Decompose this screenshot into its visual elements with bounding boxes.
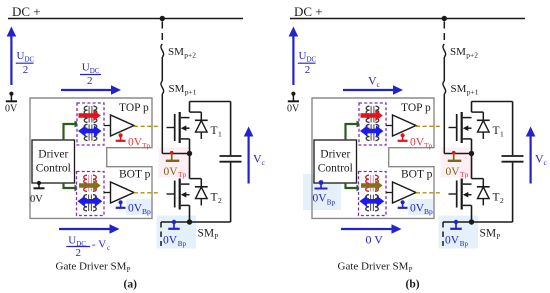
figure (b) node: rail junction dot xyxy=(442,16,447,21)
figure (a) BOT transformer upper xyxy=(88,175,90,191)
svg-text:p+1: p+1 xyxy=(467,88,479,97)
figure (b) BOT buffer ground xyxy=(401,200,405,204)
figure (a) node: bottom junction dot xyxy=(187,219,192,224)
svg-text:0V: 0V xyxy=(128,137,143,149)
figure (a) arrow (bottom horizontal) xyxy=(59,228,111,230)
svg-text:0V: 0V xyxy=(446,166,461,178)
figure (a) highlight behind 0V_Bp (bottom) xyxy=(157,216,197,249)
figure (b) SM chain dashed wire xyxy=(443,22,445,45)
svg-text:c: c xyxy=(107,244,110,252)
figure (b) highlight behind 0V_Bp (BOT buffer) xyxy=(408,199,434,215)
figure (a) SM chain break squiggle lower xyxy=(161,81,164,94)
figure (a) midpoint wire xyxy=(162,153,189,155)
svg-text:- V: - V xyxy=(92,239,106,251)
svg-text:BOT p: BOT p xyxy=(401,169,433,181)
transistor T1(a) channel bar xyxy=(179,112,181,143)
figure (b) BOT buffer input wire xyxy=(386,192,393,194)
figure (a) node 0V under driver control xyxy=(37,181,41,185)
svg-text:Driver: Driver xyxy=(38,149,68,161)
figure (b) ground 0V_Bp (bottom) xyxy=(455,222,457,228)
figure (b) highlight behind 0V_Bp (bottom) xyxy=(439,216,479,249)
svg-text:U: U xyxy=(82,62,90,74)
transistor T1(b) gate lead xyxy=(449,127,457,129)
svg-text:SM: SM xyxy=(450,46,466,58)
figure (b) driver control box U1 xyxy=(314,140,357,183)
svg-text:SM: SM xyxy=(480,227,497,239)
diode of T2(b) top tie xyxy=(472,178,484,180)
figure (b) node dot 0V_Tp tap xyxy=(452,151,456,155)
svg-text:p+1: p+1 xyxy=(185,88,197,97)
svg-text:1: 1 xyxy=(500,130,504,139)
figure (b) BOT transformer upper xyxy=(370,175,372,191)
figure (b) node: midpoint junction dot xyxy=(469,151,474,156)
diode of T1(a) cathode bar xyxy=(195,119,208,121)
diode of T2(a) triangle xyxy=(196,187,208,199)
figure (a) SM chain wire segment xyxy=(161,57,163,81)
transistor T2(a) gate bar xyxy=(174,181,176,208)
svg-text:1: 1 xyxy=(218,130,222,139)
figure (b) ground 0V_Bp under driver control xyxy=(315,188,328,190)
figure (a) BOT transformer dashed box xyxy=(77,172,105,216)
transistor T2(b) source stub xyxy=(463,204,472,206)
figure (a) BOT signal blue double arrow xyxy=(77,196,102,207)
svg-text:P: P xyxy=(409,266,413,274)
svg-text:2: 2 xyxy=(23,64,29,76)
figure (a) TOP transformer upper xyxy=(88,106,90,122)
transistor T1(b) source stub xyxy=(463,138,472,140)
svg-text:Bp: Bp xyxy=(327,199,336,207)
diode of T2(a) top tie xyxy=(190,178,202,180)
figure (a) TOP buffer input wire xyxy=(104,125,111,127)
svg-text:Gate Driver SM: Gate Driver SM xyxy=(56,260,127,272)
svg-text:0V: 0V xyxy=(410,137,425,149)
svg-text:Bp: Bp xyxy=(424,207,433,216)
figure (b) SM chain break squiggle upper xyxy=(443,44,446,57)
figure (b) TOP power-flow red arrow xyxy=(361,110,383,121)
svg-text:0V: 0V xyxy=(5,104,18,115)
diode of T1(a) triangle xyxy=(196,121,208,133)
figure (b) SM chain wire segment xyxy=(443,57,445,81)
svg-text:SM: SM xyxy=(451,83,467,95)
figure (b) DC+ rail wire xyxy=(290,18,525,20)
diode of T2(b) triangle xyxy=(478,187,490,199)
figure (b) SM chain break squiggle lower xyxy=(443,81,446,94)
figure (b) TOP transformer lower xyxy=(370,124,372,140)
transistor T1(b) drain stub xyxy=(463,117,472,119)
figure (a) BOT buffer input wire xyxy=(104,192,111,194)
transistor T1(b) body stub with arrow xyxy=(466,127,472,129)
svg-text:SM: SM xyxy=(168,46,184,58)
diode of T1(a) cathode lead xyxy=(200,112,202,120)
figure (a) node dot 0V_Tp tap xyxy=(170,151,174,155)
svg-text:Driver: Driver xyxy=(320,149,350,161)
svg-text:Tp: Tp xyxy=(460,170,469,179)
figure (a) SM chain continuation dashed wire xyxy=(160,222,162,246)
svg-text:Bp: Bp xyxy=(178,240,187,248)
figure (b) capacitor C xyxy=(502,155,524,157)
svg-text:SM: SM xyxy=(198,227,215,239)
svg-text:0V: 0V xyxy=(313,193,328,205)
figure (a) T2 drain wire from midpoint xyxy=(189,154,191,179)
figure (a) capacitor C xyxy=(220,155,242,157)
figure (a) gate driver board outline xyxy=(30,98,152,218)
svg-text:0V: 0V xyxy=(164,166,179,178)
figure (a) SM chain dashed wire xyxy=(161,22,163,45)
transistor T2(b) gate bar xyxy=(456,181,458,208)
transistor T2(b) gate lead xyxy=(449,193,457,195)
figure (b) TOP signal blue double arrow xyxy=(360,125,384,136)
figure (a) T1 drain wire to top xyxy=(189,102,191,113)
figure (b) bottom wire xyxy=(443,221,513,223)
svg-text:TOP p: TOP p xyxy=(401,102,431,114)
figure (b) node: bottom junction dot xyxy=(469,219,474,224)
figure (b) arrow U_DC/2 (vertical) xyxy=(292,33,294,85)
figure (a) BOT power-flow olive arrow xyxy=(79,180,101,191)
figure (b) TOP buffer triangle xyxy=(393,115,417,136)
figure (a) ground 0V under driver control xyxy=(34,187,45,189)
diode of T1(a) anode lead xyxy=(200,132,202,139)
svg-text:BOT p: BOT p xyxy=(119,169,151,181)
figure (b) TOP buffer ground xyxy=(401,133,405,137)
transistor T1(a) body stub with arrow xyxy=(184,127,190,129)
figure (b) T2 source wire to bottom xyxy=(471,205,473,222)
figure (b) green control wire to TOP xyxy=(346,124,358,140)
figure (a) arrow (top horizontal) xyxy=(61,89,113,91)
svg-text:Control: Control xyxy=(36,163,71,175)
figure (a) BOT buffer ground xyxy=(119,200,123,204)
svg-text:T: T xyxy=(493,192,500,204)
svg-text:p+2: p+2 xyxy=(184,51,196,60)
figure (a) node: midpoint junction dot xyxy=(187,151,192,156)
svg-text:U: U xyxy=(17,50,25,62)
figure (b) highlight behind 0V_Bp (driver control) xyxy=(303,174,341,210)
figure (b) BOT power-flow olive arrow xyxy=(361,180,383,191)
diode of T2(b) cathode bar xyxy=(477,186,490,188)
figure (a) green control wire to BOT xyxy=(64,183,76,188)
svg-text:0V: 0V xyxy=(30,194,43,205)
svg-text:P: P xyxy=(496,233,500,241)
transistor T2(b) body stub with arrow xyxy=(466,194,472,196)
diode of T2(a) cathode bar xyxy=(195,186,208,188)
figure (b) green control wire to BOT xyxy=(346,183,358,188)
figure (a) T1 source wire to midpoint xyxy=(189,139,191,154)
figure (b) SM chain wire to midpoint xyxy=(443,94,445,154)
diode of T2(a) anode lead xyxy=(200,199,202,206)
figure (a) ground 0V (left) xyxy=(6,100,17,102)
transistor T1(b) channel bar xyxy=(461,112,463,143)
figure (a) T2 source wire to bottom xyxy=(189,205,191,222)
svg-text:Tp: Tp xyxy=(142,141,151,150)
svg-text:0 V: 0 V xyxy=(366,233,384,247)
transistor T1(b) gate bar xyxy=(456,114,458,141)
figure (b) BOT signal blue double arrow xyxy=(359,196,384,207)
svg-text:Bp: Bp xyxy=(460,240,469,248)
figure (a) outer cell right wire lower xyxy=(230,163,232,222)
svg-text:DC: DC xyxy=(90,67,100,75)
transistor T2(a) source stub xyxy=(181,204,190,206)
svg-text:DC +: DC + xyxy=(294,4,323,19)
figure (a) SM chain wire to midpoint xyxy=(161,94,163,154)
figure (b) BOT transformer dashed box xyxy=(359,172,387,216)
figure (b) midpoint wire xyxy=(444,153,471,155)
transistor T2(a) channel bar xyxy=(179,179,181,210)
figure (a) TOP transformer dashed box xyxy=(77,103,104,145)
transistor T1(a) gate lead xyxy=(167,127,175,129)
svg-text:0V: 0V xyxy=(445,235,460,247)
svg-text:Tp: Tp xyxy=(424,141,433,150)
figure (a) outer cell right wire upper xyxy=(230,102,232,156)
svg-text:U: U xyxy=(68,235,76,247)
figure (a) arrow V_c (capacitor voltage) xyxy=(248,133,250,184)
diode of T2(b) anode lead xyxy=(482,199,484,206)
figure (a) TOP signal blue double arrow xyxy=(78,125,102,136)
transistor T2(a) drain stub xyxy=(181,183,190,185)
figure (b) TOP transformer dashed box xyxy=(359,103,386,145)
figure (b) outer cell right wire upper xyxy=(512,102,514,156)
figure (a) arrow U_DC/2 (vertical) xyxy=(10,33,12,85)
figure (a) SM chain break squiggle upper xyxy=(161,44,164,57)
svg-text:2: 2 xyxy=(500,196,504,205)
svg-text:Tp: Tp xyxy=(178,170,187,179)
svg-text:Gate Driver SM: Gate Driver SM xyxy=(338,260,409,272)
transistor T2(b) channel bar xyxy=(461,179,463,210)
svg-text:2: 2 xyxy=(87,75,93,87)
figure (a) ground 0V_Tp (midpoint) xyxy=(171,154,173,161)
svg-text:T: T xyxy=(493,125,500,137)
svg-text:p+2: p+2 xyxy=(466,51,478,60)
transistor T1(a) drain stub xyxy=(181,117,190,119)
svg-text:(a): (a) xyxy=(124,279,138,291)
transistor T1(a) source stub xyxy=(181,138,190,140)
figure (b) highlight behind 0V_Tp (midpoint) xyxy=(441,148,474,178)
svg-text:2: 2 xyxy=(76,247,82,259)
figure (b) TOP transformer upper xyxy=(370,106,372,122)
diode of T1(b) top tie xyxy=(472,111,484,113)
figure (b) ground 0V_Tp (midpoint) xyxy=(453,154,455,161)
figure (b) ground 0V (left) xyxy=(288,100,299,102)
figure (b) outer cell top wire xyxy=(472,101,513,103)
figure (a) highlight behind 0V_Bp (BOT buffer) xyxy=(126,199,152,215)
transistor T2(b) drain stub xyxy=(463,183,472,185)
svg-text:DC: DC xyxy=(25,56,35,64)
svg-text:Control: Control xyxy=(318,163,353,175)
diode of T1(b) cathode lead xyxy=(482,112,484,120)
diode of T2(b) cathode lead xyxy=(482,179,484,187)
figure (a) green control wire to TOP xyxy=(64,124,76,140)
figure (a) TOP buffer triangle xyxy=(111,115,135,136)
svg-text:0V: 0V xyxy=(163,235,178,247)
figure (b) BOT transformer lower xyxy=(370,195,372,211)
svg-text:0V: 0V xyxy=(287,104,300,115)
figure (a) node: rail junction dot xyxy=(160,16,165,21)
svg-text:2: 2 xyxy=(218,196,222,205)
svg-text:0V: 0V xyxy=(410,203,425,215)
figure (a) TOP gate dashed signal wire xyxy=(134,125,158,127)
figure (a) TOP buffer ground xyxy=(119,133,123,137)
transistor T2(a) body stub with arrow xyxy=(184,194,190,196)
figure (a) DC+ rail wire xyxy=(8,18,243,20)
figure (b) gate driver board outline xyxy=(312,98,434,218)
figure (b) BOT gate dashed signal wire xyxy=(416,192,440,194)
figure (a) TOP transformer lower xyxy=(88,124,90,140)
diode of T1(b) triangle xyxy=(478,121,490,133)
figure (b) T2 drain wire from midpoint xyxy=(471,154,473,179)
figure (b) arrow V_c (capacitor voltage) xyxy=(529,133,531,184)
figure (a) bottom wire xyxy=(161,221,231,223)
figure (b) T1 source wire to midpoint xyxy=(471,139,473,154)
svg-text:TOP p: TOP p xyxy=(119,102,149,114)
figure (a) node 0V (left) xyxy=(9,92,13,96)
figure (a) BOT gate dashed signal wire xyxy=(134,192,158,194)
svg-text:U: U xyxy=(299,50,307,62)
figure (a) outer cell top wire xyxy=(190,101,231,103)
svg-text:DC: DC xyxy=(307,56,317,64)
transistor T1(a) gate bar xyxy=(174,114,176,141)
figure (b) TOP gate dashed signal wire xyxy=(416,125,440,127)
diode of T2(a) cathode lead xyxy=(200,179,202,187)
svg-text:2: 2 xyxy=(305,64,311,76)
figure (b) TOP buffer input wire xyxy=(386,125,393,127)
svg-text:P: P xyxy=(214,233,218,241)
figure (b) node dot 0V_Bp tap xyxy=(454,220,458,224)
diode of T1(b) anode lead xyxy=(482,132,484,139)
figure (a) BOT buffer triangle xyxy=(111,182,135,203)
svg-text:T: T xyxy=(211,125,218,137)
svg-text:T: T xyxy=(211,192,218,204)
diode of T1(b) cathode bar xyxy=(477,119,490,121)
figure (b) T1 drain wire to top xyxy=(471,102,473,113)
diode of T1(a) top tie xyxy=(190,111,202,113)
figure (a) TOP power-flow red arrow xyxy=(79,110,101,121)
svg-text:0V: 0V xyxy=(128,203,143,215)
figure (a) BOT transformer lower xyxy=(88,195,90,211)
figure (a) highlight behind 0V_Tp (midpoint) xyxy=(159,148,192,178)
svg-text:P: P xyxy=(127,266,131,274)
figure (b) node 0V (left) xyxy=(291,92,295,96)
figure (a) ground 0V_Bp (bottom) xyxy=(173,222,175,228)
figure (b) arrow (bottom horizontal) xyxy=(341,228,393,230)
figure (a) node dot 0V_Bp tap xyxy=(172,220,176,224)
figure (b) arrow (top horizontal) xyxy=(343,89,395,91)
svg-text:DC +: DC + xyxy=(12,4,41,19)
figure (b) outer cell right wire lower xyxy=(512,163,514,222)
figure (a) driver control box U1 xyxy=(32,140,75,183)
transistor T2(a) gate lead xyxy=(167,193,175,195)
figure (b) BOT buffer triangle xyxy=(393,182,417,203)
figure (b) SM chain continuation dashed wire xyxy=(442,222,444,246)
figure (b) node 0V_Bp under driver control xyxy=(319,180,324,185)
svg-text:SM: SM xyxy=(169,83,185,95)
svg-text:(b): (b) xyxy=(406,279,420,291)
svg-text:Bp: Bp xyxy=(142,207,151,216)
